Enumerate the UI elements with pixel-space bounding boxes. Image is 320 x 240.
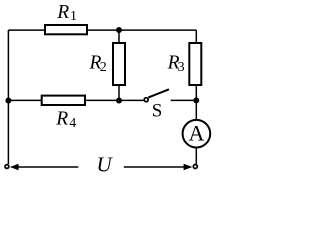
svg-text:3: 3 [178,60,185,75]
wire R2 branch top stub [118,30,120,44]
node junction top (R2/top rail) [116,27,122,33]
switch S pivot [144,98,148,102]
wire R2 branch bottom stub [118,86,120,101]
U arrowhead left [10,164,19,170]
U arrow left segment [17,166,79,168]
resistor R3 [189,43,201,85]
node junction left (left rail/middle rail) [5,98,11,104]
terminal right [193,165,197,169]
wire right rail middle [195,86,197,121]
wire left rail [7,30,9,164]
svg-text:S: S [152,101,163,122]
node junction R2 bottom [116,98,122,104]
ammeter A body [183,120,211,148]
resistor R1 [45,25,87,34]
svg-text:R: R [56,2,69,23]
wire right rail top stub [195,30,197,44]
svg-text:1: 1 [70,9,77,24]
svg-text:2: 2 [100,60,107,75]
wire right rail bottom [195,148,197,164]
svg-text:U: U [97,153,114,177]
switch S blade [148,89,169,97]
svg-text:A: A [188,121,204,146]
U arrowhead right [184,164,193,170]
wire top rail [8,29,196,31]
wire switch to node B [171,99,197,101]
resistor R4 [42,96,85,105]
U arrow right segment [124,166,186,168]
node junction right (switch/right rail) [193,97,199,103]
resistor R2 [113,43,125,85]
terminal left [5,165,9,169]
svg-text:4: 4 [69,116,76,131]
wire middle rail [8,99,144,101]
svg-text:R: R [55,108,68,129]
